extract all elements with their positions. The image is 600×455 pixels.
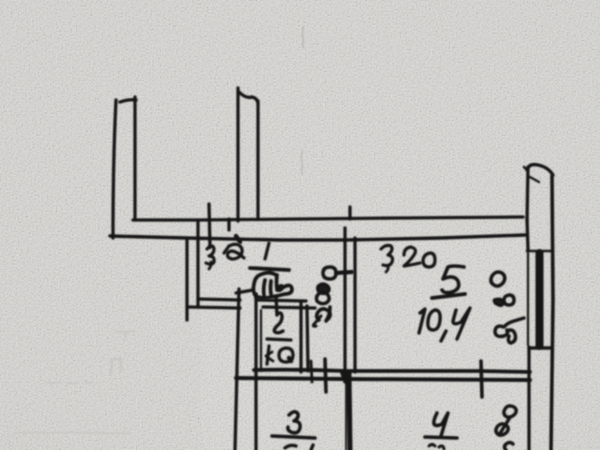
label 1,0 closet area	[266, 346, 293, 364]
left balcony top cap	[120, 100, 136, 102]
top wall outer line	[133, 217, 523, 220]
closet right wall outer line	[299, 303, 302, 372]
bottom wall lower line	[236, 378, 530, 380]
corner overshoot flick	[524, 167, 528, 171]
tick above top wall at x350	[348, 207, 351, 219]
right inner wall lower segment	[527, 347, 530, 450]
top-right stub spur	[530, 177, 539, 182]
label 3,20 room5 width	[381, 245, 435, 272]
partial area digits room 4	[429, 445, 444, 450]
partial area digits room 3	[285, 445, 313, 450]
junction blob rooms 3-4	[343, 372, 346, 381]
bottom wall tick T3	[481, 361, 482, 397]
label 2,89 corridor height dim	[313, 267, 352, 326]
bottom wall upper line	[254, 370, 530, 372]
window glass bar	[536, 253, 544, 346]
right outer wall	[551, 176, 553, 450]
window side line	[527, 253, 529, 345]
faint ghost dashes left	[46, 382, 92, 384]
label 2,60 room4 height dim	[496, 406, 516, 450]
right balcony right line	[256, 101, 259, 217]
label 3 room3 number	[288, 412, 300, 433]
label 4 room4 number	[434, 413, 448, 436]
label 10,4 room5 area	[419, 308, 470, 341]
wall tick at x229	[227, 219, 230, 230]
step wall right line	[254, 294, 257, 450]
corridor left wall outer line	[185, 239, 188, 320]
faint ghost mark left 1	[110, 358, 122, 374]
room3-room4 wall	[349, 372, 350, 450]
closet right wall inner line	[307, 306, 308, 371]
fraction bar corridor	[250, 268, 289, 270]
wall tick at x209	[209, 204, 210, 247]
underline room 4	[425, 437, 457, 438]
window top cap	[527, 250, 552, 253]
right balcony left line	[236, 88, 239, 221]
room3-room4 wall edge line	[345, 381, 347, 450]
top wall inner line	[110, 235, 525, 240]
corridor left wall inner line	[196, 221, 199, 307]
faint ghost streak bottom-left	[14, 432, 131, 434]
label 2 closet room number	[274, 296, 283, 333]
closet top wall lower line	[263, 307, 315, 308]
right inner wall upper segment	[527, 218, 528, 250]
corridor bottom wall upper line	[198, 299, 240, 300]
top-right wall stub hook	[527, 165, 553, 175]
label 3,12 corridor width	[206, 244, 244, 269]
label 5 room number	[442, 266, 464, 293]
underline room 5	[432, 294, 465, 298]
label 2,80 room5 height dim	[491, 272, 524, 343]
underline room 3	[272, 436, 315, 438]
corridor bottom wall lower line	[188, 307, 240, 308]
lighter plan interior	[201, 241, 526, 450]
window bottom cap	[529, 346, 550, 350]
right balcony top hook	[239, 92, 258, 103]
corridor-room5 wall left line	[343, 228, 346, 372]
label 1 room number corridor	[265, 243, 269, 259]
left balcony inner line	[133, 97, 136, 219]
step wall left line	[235, 289, 239, 450]
faint ghost mark mid	[115, 331, 137, 340]
closet top wall upper line	[258, 300, 306, 301]
faint smudge mid-left	[301, 150, 303, 175]
closet left inner line	[260, 310, 262, 371]
label 5,6 corridor area scribble	[236, 273, 292, 298]
junction dot at x238	[236, 236, 240, 242]
faint smudge top	[302, 26, 304, 48]
closet inner line tick below	[311, 361, 312, 382]
top-right wall stub inner line	[527, 167, 528, 222]
left balcony outer line	[113, 100, 116, 238]
fraction bar closet	[267, 339, 291, 340]
bottom wall tick T2	[325, 359, 326, 392]
corridor-room5 wall right line	[353, 238, 356, 372]
